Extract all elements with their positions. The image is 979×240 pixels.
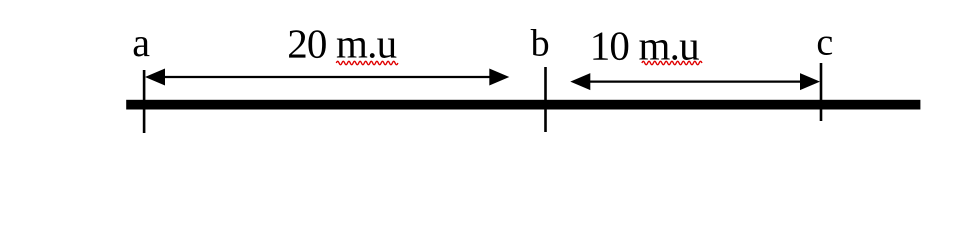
svg-text:b: b xyxy=(531,23,550,65)
tick b xyxy=(544,67,547,132)
tick a xyxy=(143,70,146,133)
spellcheck squiggle under first m.u xyxy=(336,61,398,64)
svg-text:a: a xyxy=(132,20,150,65)
tick c xyxy=(820,63,823,121)
dimension arrow a-b (double headed) xyxy=(145,69,509,86)
svg-text:20 m.u: 20 m.u xyxy=(287,20,396,66)
spellcheck squiggle under second m.u xyxy=(642,61,702,64)
baseline rod (thick horizontal line) xyxy=(126,100,920,110)
svg-text:c: c xyxy=(816,22,833,64)
dimension arrow b-c (double headed) xyxy=(570,73,820,90)
